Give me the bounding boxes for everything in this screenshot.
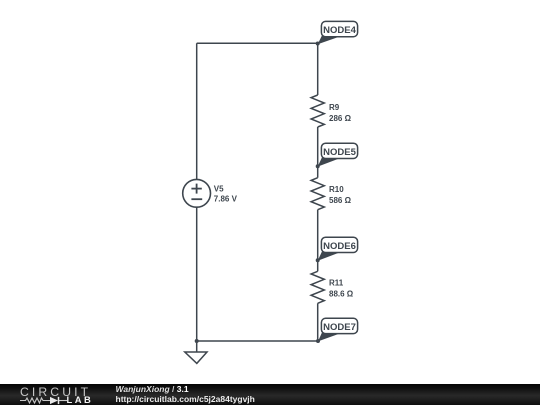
footer author line [116, 384, 189, 394]
junction dot NODE7 [316, 339, 320, 343]
svg-text:NODE7: NODE7 [323, 322, 356, 333]
svg-text:286 Ω: 286 Ω [329, 114, 352, 123]
junction dot NODE5 [316, 164, 320, 168]
svg-text:NODE4: NODE4 [323, 25, 356, 36]
wire right: NODE4 to R9 [317, 43, 319, 95]
wire bottom horizontal [197, 340, 318, 342]
svg-text:R11: R11 [329, 279, 344, 288]
voltage source V5 circle [183, 179, 211, 207]
node flag box NODE7 [321, 318, 357, 333]
resistor R9 body [311, 95, 324, 127]
svg-text:NODE6: NODE6 [323, 241, 356, 252]
voltage source minus sign [191, 198, 202, 200]
CircuitLab logo wordmark CIRCUIT [20, 385, 91, 399]
svg-text:R10: R10 [329, 185, 344, 194]
wire right: R11 to NODE7 [317, 303, 319, 341]
wire right: R10 to NODE6 to R11 [317, 210, 319, 272]
node flag box NODE6 [321, 237, 357, 252]
node flag pointer NODE7 [318, 332, 340, 342]
wire left lower (source bottom to ground node) [196, 207, 198, 341]
svg-text:R9: R9 [329, 103, 340, 112]
CircuitLab logo resistor-diode glyph [20, 396, 67, 405]
wire left upper (source top) [196, 43, 198, 179]
resistor R10 body [311, 178, 324, 210]
ground stem wire [196, 341, 198, 352]
node flag pointer NODE6 [318, 251, 340, 261]
junction dot NODE4 [316, 42, 320, 46]
resistor R11 body [311, 271, 324, 303]
svg-text:7.86 V: 7.86 V [214, 195, 238, 204]
footer url line [116, 394, 255, 404]
node flag pointer NODE5 [318, 157, 340, 167]
svg-text:V5: V5 [214, 185, 224, 194]
junction dot ground node [195, 339, 199, 343]
junction dot NODE6 [316, 258, 320, 262]
voltage source plus sign [191, 184, 201, 194]
wire right: R9 to NODE5 to R10 [317, 127, 319, 178]
node flag box NODE4 [321, 21, 357, 36]
node flag pointer NODE4 [318, 35, 340, 44]
svg-text:88.6 Ω: 88.6 Ω [329, 289, 354, 298]
ground symbol triangle [185, 352, 207, 363]
svg-text:NODE5: NODE5 [323, 147, 356, 158]
node flag box NODE5 [321, 143, 357, 158]
footer bar [0, 384, 540, 405]
CircuitLab logo wordmark LAB [67, 394, 94, 405]
wire top horizontal [197, 42, 318, 44]
svg-text:586 Ω: 586 Ω [329, 196, 352, 205]
